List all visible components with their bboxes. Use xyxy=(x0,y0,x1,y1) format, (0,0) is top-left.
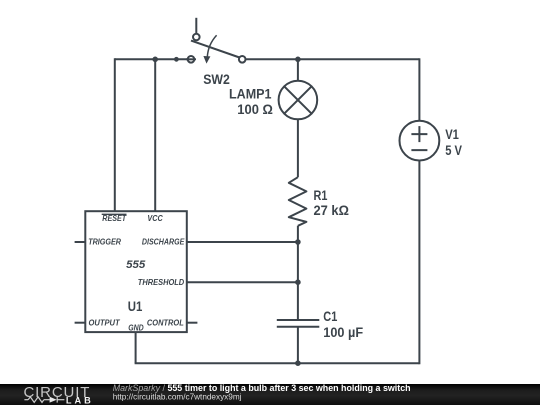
svg-text:SW2: SW2 xyxy=(203,72,230,87)
pin stub TRIGGER xyxy=(75,241,86,243)
node junction discharge xyxy=(295,239,301,245)
svg-text:CONTROL: CONTROL xyxy=(147,319,184,328)
svg-text:MarkSparky / 555 timer to ligh: MarkSparky / 555 timer to light a bulb a… xyxy=(113,383,411,393)
svg-text:555: 555 xyxy=(126,259,146,271)
wire top-left horizontal xyxy=(115,58,188,60)
svg-text:C1: C1 xyxy=(323,309,337,324)
svg-text:100 Ω: 100 Ω xyxy=(237,102,273,117)
svg-text:VCC: VCC xyxy=(147,214,163,223)
wire threshold xyxy=(187,281,298,283)
wire top horizontal to V1 xyxy=(246,58,420,60)
resistor R1 zigzag xyxy=(289,177,307,226)
wire vertical to RESET pin xyxy=(114,58,116,212)
switch SW2 actuation arc arrow xyxy=(203,35,216,63)
IC U1 555 box xyxy=(85,211,187,332)
wire V1 vertical top xyxy=(418,58,420,120)
node switch wire end dot xyxy=(174,57,179,62)
svg-text:LAB: LAB xyxy=(66,395,91,405)
svg-text:100 µF: 100 µF xyxy=(323,325,363,340)
svg-text:THRESHOLD: THRESHOLD xyxy=(138,278,185,287)
svg-text:V1: V1 xyxy=(445,127,459,142)
lamp LAMP1 xyxy=(279,81,318,120)
voltage source V1 xyxy=(400,121,440,161)
wire discharge xyxy=(187,241,298,243)
wire GND vertical xyxy=(135,332,137,363)
logo resistor-diode glyph xyxy=(24,397,64,403)
footer bar xyxy=(0,384,540,405)
node junction at VCC branch xyxy=(152,57,158,63)
pin RESET overline xyxy=(102,213,127,215)
wire capacitor to bottom xyxy=(297,327,299,364)
svg-text:OUTPUT: OUTPUT xyxy=(89,319,121,328)
svg-text:U1: U1 xyxy=(128,299,143,314)
wire resistor to capacitor xyxy=(297,226,299,319)
node junction lamp branch xyxy=(295,57,301,63)
wire lamp top stub xyxy=(297,59,299,80)
svg-text:DISCHARGE: DISCHARGE xyxy=(142,238,185,247)
wire vertical to VCC pin xyxy=(154,59,156,212)
svg-text:TRIGGER: TRIGGER xyxy=(88,238,121,247)
svg-text:GND: GND xyxy=(128,324,144,333)
node junction bottom xyxy=(295,360,301,366)
node junction threshold xyxy=(295,279,301,285)
wire bottom horizontal xyxy=(135,362,420,364)
svg-text:R1: R1 xyxy=(314,188,328,203)
switch SW2 left throw terminal xyxy=(186,56,196,63)
pin stub CONTROL xyxy=(187,322,198,324)
svg-text:RESET: RESET xyxy=(102,214,127,223)
switch SW2 pole terminal xyxy=(239,56,246,63)
svg-text:LAMP1: LAMP1 xyxy=(229,87,272,102)
svg-text:http://circuitlab.com/c7wtndex: http://circuitlab.com/c7wtndexyx9mj xyxy=(113,392,242,401)
switch SW2 top throw terminal with stub xyxy=(193,18,200,41)
capacitor C1 plates xyxy=(277,320,320,327)
svg-text:27 kΩ: 27 kΩ xyxy=(314,203,350,218)
switch SW2 blade xyxy=(191,41,240,58)
wire V1 vertical bottom xyxy=(418,161,420,365)
svg-text:5 V: 5 V xyxy=(445,143,462,158)
pin stub OUTPUT xyxy=(75,322,86,324)
wire lamp to resistor xyxy=(297,119,299,177)
